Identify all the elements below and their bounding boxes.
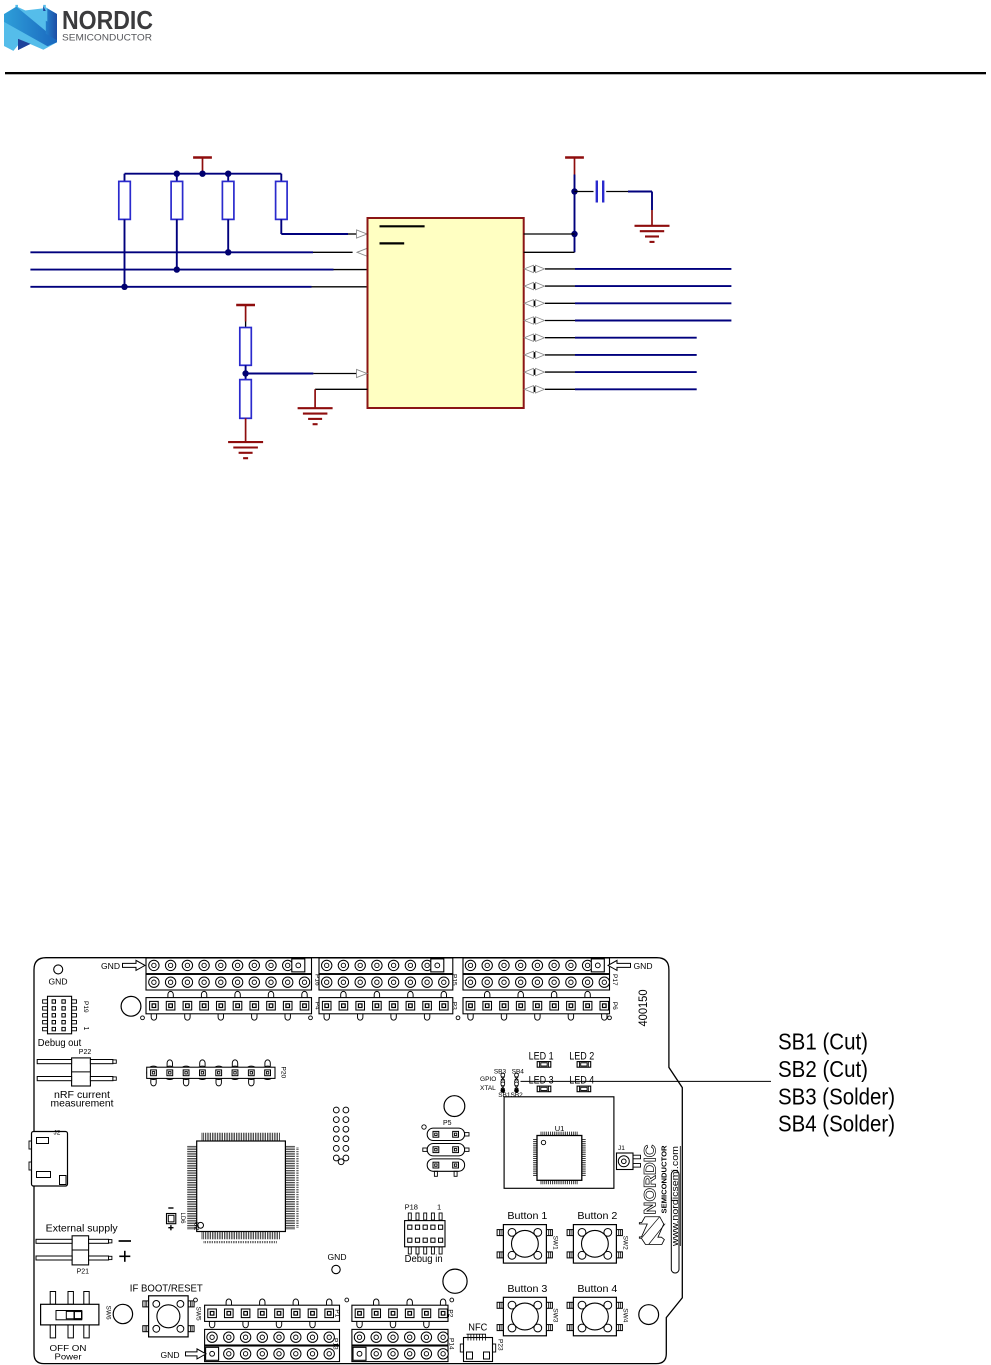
svg-text:XTAL: XTAL bbox=[480, 1085, 496, 1092]
svg-text:Button 4: Button 4 bbox=[577, 1283, 617, 1295]
svg-text:SB4 (Solder): SB4 (Solder) bbox=[778, 1111, 895, 1137]
svg-text:SB1 (Cut): SB1 (Cut) bbox=[778, 1029, 868, 1055]
svg-text:measurement: measurement bbox=[51, 1098, 114, 1110]
svg-text:IF BOOT/RESET: IF BOOT/RESET bbox=[130, 1282, 204, 1294]
svg-text:P3: P3 bbox=[451, 1002, 458, 1010]
svg-text:GND: GND bbox=[101, 961, 120, 971]
svg-text:P15: P15 bbox=[451, 974, 458, 986]
svg-text:SB2 (Cut): SB2 (Cut) bbox=[778, 1056, 868, 1082]
svg-text:SW4: SW4 bbox=[621, 1308, 628, 1322]
svg-text:NORDIC: NORDIC bbox=[62, 5, 153, 35]
svg-text:J1: J1 bbox=[618, 1145, 625, 1152]
svg-text:P19: P19 bbox=[82, 1001, 89, 1013]
svg-text:SW6: SW6 bbox=[105, 1306, 112, 1320]
svg-text:SW1: SW1 bbox=[551, 1236, 558, 1250]
svg-text:LED 3: LED 3 bbox=[529, 1074, 554, 1086]
svg-text:P13: P13 bbox=[332, 1338, 339, 1350]
svg-text:External supply: External supply bbox=[46, 1223, 119, 1235]
svg-text:P1: P1 bbox=[334, 1309, 341, 1317]
svg-text:Debug out: Debug out bbox=[38, 1037, 82, 1049]
svg-text:SW3: SW3 bbox=[551, 1308, 558, 1322]
svg-text:P2: P2 bbox=[447, 1309, 454, 1317]
svg-text:SW2: SW2 bbox=[621, 1236, 628, 1250]
svg-text:GPIO: GPIO bbox=[480, 1076, 496, 1083]
svg-text:P22: P22 bbox=[79, 1049, 92, 1056]
svg-text:SW5: SW5 bbox=[195, 1307, 202, 1321]
svg-text:J2: J2 bbox=[54, 1130, 61, 1137]
svg-text:www.nordicsemi.com: www.nordicsemi.com bbox=[670, 1146, 680, 1247]
svg-text:SB1SB2: SB1SB2 bbox=[498, 1092, 523, 1099]
svg-text:Button 2: Button 2 bbox=[577, 1210, 617, 1222]
svg-text:GND: GND bbox=[328, 1252, 347, 1262]
svg-text:400150: 400150 bbox=[638, 990, 650, 1027]
svg-text:P18: P18 bbox=[405, 1203, 418, 1212]
svg-text:NFC: NFC bbox=[468, 1322, 487, 1334]
svg-text:LED 2: LED 2 bbox=[569, 1051, 594, 1063]
svg-text:NORDIC: NORDIC bbox=[642, 1144, 660, 1214]
svg-text:P14: P14 bbox=[448, 1338, 455, 1350]
svg-text:SEMICONDUCTOR: SEMICONDUCTOR bbox=[662, 1146, 669, 1214]
svg-text:1: 1 bbox=[437, 1203, 441, 1212]
svg-text:P21: P21 bbox=[77, 1269, 90, 1276]
svg-text:1: 1 bbox=[82, 1027, 89, 1031]
svg-text:Button 3: Button 3 bbox=[507, 1283, 547, 1295]
svg-text:SEMICONDUCTOR: SEMICONDUCTOR bbox=[62, 33, 152, 44]
svg-text:GND: GND bbox=[49, 977, 68, 987]
svg-text:Button 1: Button 1 bbox=[507, 1210, 547, 1222]
svg-text:LED 1: LED 1 bbox=[529, 1051, 554, 1063]
svg-text:P23: P23 bbox=[497, 1339, 504, 1351]
svg-text:GND: GND bbox=[161, 1350, 180, 1360]
svg-text:U2: U2 bbox=[193, 1222, 200, 1231]
svg-text:P20: P20 bbox=[280, 1067, 287, 1079]
svg-text:P6: P6 bbox=[611, 1002, 618, 1010]
svg-text:GND: GND bbox=[634, 961, 653, 971]
svg-text:P5: P5 bbox=[443, 1120, 452, 1127]
svg-text:LD6: LD6 bbox=[179, 1213, 185, 1225]
svg-text:Debug in: Debug in bbox=[405, 1253, 443, 1265]
svg-text:LED 4: LED 4 bbox=[569, 1074, 594, 1086]
svg-text:Power: Power bbox=[55, 1352, 82, 1362]
svg-text:SB3 (Solder): SB3 (Solder) bbox=[778, 1083, 895, 1109]
svg-text:P17: P17 bbox=[611, 974, 618, 986]
